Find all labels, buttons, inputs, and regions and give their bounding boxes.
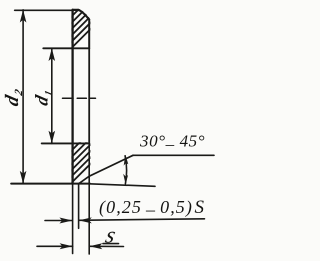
washer hole bottom edge: [42, 142, 89, 144]
arrow s right: [89, 243, 102, 249]
label d1: [32, 89, 55, 107]
d2 top extension line: [15, 9, 73, 11]
washer bottom chamfer and angle leader: [79, 155, 133, 183]
s label underline: [103, 243, 119, 245]
bottom edge right extension: [89, 184, 155, 187]
angle label shelf: [133, 154, 214, 156]
arrow chamfer dim left: [59, 218, 72, 224]
extension line below chamfer point: [78, 184, 80, 229]
arrow d1 bottom: [49, 131, 56, 144]
arrow s left: [60, 243, 73, 249]
washer top edge: [73, 9, 78, 11]
washer hole top edge: [43, 47, 89, 49]
arrow angle arc top: [124, 155, 129, 166]
washer left face: [71, 10, 73, 184]
arrow d1 top: [49, 48, 56, 61]
svg-text:(0,25–0,5)S: (0,25–0,5)S: [99, 197, 205, 220]
svg-text:s: s: [103, 223, 118, 249]
extension line below left face: [72, 184, 74, 254]
chamfer dimension line right segment: [79, 219, 205, 221]
arrow chamfer dim right: [79, 217, 92, 223]
svg-text:30°– 45°: 30°– 45°: [139, 131, 205, 153]
d2 dimension line: [22, 10, 24, 184]
center line: [63, 97, 96, 99]
arrow d2 bottom: [20, 171, 27, 184]
svg-text:1: 1: [44, 89, 55, 97]
washer right face: [88, 20, 90, 49]
d1 dimension line: [51, 48, 53, 143]
label d2: [2, 88, 25, 108]
arrow d2 top: [20, 10, 27, 23]
chamfer dimension line left segment: [45, 220, 72, 222]
arrow angle arc bottom: [123, 174, 128, 185]
washer bottom edge: [11, 183, 90, 185]
s dimension line right segment: [89, 245, 123, 247]
hatching bottom band: [71, 130, 93, 184]
angle dimension arc: [125, 156, 126, 184]
hatching top band: [71, 0, 93, 49]
extension line below right face: [88, 143, 90, 254]
s dimension line left segment: [37, 245, 73, 247]
washer right face lower: [88, 48, 90, 143]
washer top chamfer: [78, 10, 89, 20]
